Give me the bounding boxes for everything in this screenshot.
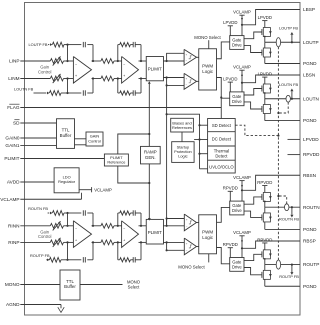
svg-text:Drive: Drive — [232, 43, 242, 48]
wire detect bus — [199, 125, 201, 169]
svg-text:ROUTP FB: ROUTP FB — [279, 274, 299, 279]
wire ls drain ROUTN — [264, 207, 266, 213]
svg-text:ROUTP FB: ROUTP FB — [30, 253, 50, 258]
wire fb2nd bot right — [130, 92, 133, 94]
svg-text:LINM: LINM — [8, 76, 19, 81]
svg-text:LOUTN FB: LOUTN FB — [279, 82, 299, 87]
svg-text:Select: Select — [128, 284, 140, 289]
wire pgnd row ROUTP — [265, 285, 300, 287]
resistor L input 1 (variable) — [50, 59, 63, 64]
block LDO Regulator — [54, 168, 79, 193]
wire row2 to stage2 — [114, 241, 122, 243]
wire comp2 output — [197, 80, 199, 82]
wire ls source ROUTN — [264, 222, 266, 229]
transistor LOUTP high-side — [263, 28, 270, 37]
op-amp R second stage — [122, 221, 139, 248]
svg-text:ROUTN FB: ROUTN FB — [279, 217, 299, 222]
wire in1 node — [64, 225, 74, 227]
svg-text:Control: Control — [38, 70, 52, 75]
block PLIMIT (bottom channel) — [146, 219, 163, 244]
wire vclamp pin up to LDO — [81, 193, 83, 199]
wire drain up LOUTP — [264, 21, 266, 28]
junction pwm2-sdtap — [220, 96, 222, 98]
wire hs source LOUTP — [264, 37, 266, 43]
block Gate Drive ROUTN — [230, 201, 244, 215]
wire gate hs LOUTN — [244, 89, 262, 96]
wire stage2 out1 — [139, 60, 147, 62]
resistor L feedback bottom — [49, 91, 61, 96]
wire bootstrap LBSN — [242, 75, 300, 83]
wire stage2 out2 — [139, 78, 147, 80]
svg-text:MONO: MONO — [5, 282, 20, 287]
wire FB arrow LOUTN — [291, 98, 293, 100]
wire gate hs ROUTP — [244, 254, 262, 260]
svg-text:ROUTN FB: ROUTN FB — [28, 206, 48, 211]
wire ttl to gain2 — [75, 144, 87, 146]
wire pwm to gate LOUTP — [217, 42, 230, 59]
wire PLIMIT2 out2 — [163, 241, 184, 243]
wire mono out — [80, 284, 123, 286]
svg-text:VCLAMP: VCLAMP — [233, 230, 251, 235]
wire gate hs ROUTN — [244, 197, 262, 204]
wire mono select to PWM2 — [208, 254, 210, 263]
wire drain up ROUTP — [264, 243, 266, 250]
svg-text:RINN: RINN — [8, 223, 19, 228]
block PLIMIT (top channel) — [146, 57, 163, 81]
svg-text:VCLAMP: VCLAMP — [0, 197, 19, 202]
resistor L feedback top — [52, 42, 64, 47]
svg-text:Drive: Drive — [232, 208, 242, 213]
wire bus to SD — [200, 124, 208, 126]
wire ls source ROUTP — [264, 279, 266, 286]
wire gate ls LOUTP — [244, 46, 262, 53]
svg-text:−: − — [123, 227, 125, 231]
transistor ROUTN low-side — [263, 213, 270, 222]
block Gate Drive ROUTP — [230, 258, 244, 272]
resistor L interstage 2 — [101, 76, 114, 81]
wire fb2nd bot left — [117, 242, 119, 259]
block RAMP GEN — [141, 146, 161, 164]
svg-text:−: − — [75, 62, 77, 66]
wire ls source LOUTP — [264, 57, 266, 64]
svg-text:GAIN0: GAIN0 — [5, 136, 19, 141]
svg-text:LPVDD: LPVDD — [258, 15, 272, 20]
svg-text:RPVDD: RPVDD — [223, 186, 238, 191]
wire drain up ROUTN — [264, 186, 266, 193]
wire fb1 cap row — [68, 212, 82, 214]
wire pwm to gate ROUTP — [217, 248, 230, 264]
svg-text:LBSP: LBSP — [303, 7, 315, 12]
wire interstage row1 — [92, 225, 101, 227]
wire in2 node — [64, 241, 74, 243]
wire pwm to gate LOUTN — [217, 78, 230, 99]
svg-text:Logic: Logic — [178, 154, 187, 159]
svg-text:PGND: PGND — [303, 118, 317, 123]
svg-text:PWM: PWM — [202, 64, 213, 69]
wire pwm to gate ROUTN — [217, 207, 230, 222]
svg-text:UVLO/OCLO: UVLO/OCLO — [209, 164, 234, 169]
svg-text:RPVDD: RPVDD — [257, 180, 272, 185]
wire plimitref elbow bottom — [118, 166, 150, 183]
svg-text:+: + — [75, 238, 77, 242]
svg-text:−: − — [186, 58, 188, 62]
transistor ROUTN high-side — [263, 192, 270, 201]
transistor LOUTN low-side — [263, 105, 270, 114]
svg-text:PGND: PGND — [303, 227, 317, 232]
wire FB arrow ROUTP — [291, 264, 293, 266]
svg-text:LOUTN FB: LOUTN FB — [14, 87, 34, 92]
sense ellipse LOUTP — [276, 38, 280, 47]
svg-text:Buffer: Buffer — [64, 284, 76, 289]
svg-text:PWM: PWM — [202, 230, 213, 235]
svg-text:FLAG: FLAG — [7, 105, 20, 110]
wire bootstrap RBSP — [242, 241, 300, 248]
wire FB arrow LOUTP — [291, 41, 293, 43]
transistor LOUTP low-side — [263, 48, 270, 57]
resistor R feedback top — [52, 211, 64, 216]
svg-text:AVDD: AVDD — [7, 180, 20, 185]
svg-text:Drive: Drive — [232, 99, 242, 104]
svg-text:Drive: Drive — [232, 265, 242, 270]
wire comp1 top input elbow — [167, 53, 185, 61]
svg-text:MONO Select: MONO Select — [194, 35, 221, 40]
wire dashed elbow ROUTN — [278, 196, 286, 204]
wire ls drain LOUTN — [264, 99, 266, 105]
wire ls source LOUTN — [264, 114, 266, 121]
capacitor L fb top — [82, 42, 84, 47]
svg-text:−: − — [186, 83, 188, 87]
wire RPVDD stub — [288, 154, 301, 156]
comparator channel1 A — [184, 49, 196, 65]
wire LOUTP FB arrow — [48, 44, 49, 46]
wire bus to UVLO — [200, 168, 208, 170]
transistor ROUTP high-side — [263, 250, 270, 259]
svg-text:Control: Control — [38, 234, 52, 239]
wire LPVDD stub — [288, 138, 301, 140]
wire comp1' top elbow — [167, 219, 185, 226]
wire pvdd down ROUTN — [229, 191, 231, 201]
svg-text:+: + — [186, 53, 188, 57]
wire fb2nd top right — [130, 44, 133, 46]
svg-text:LPVDD: LPVDD — [258, 72, 272, 77]
svg-text:−: − — [123, 62, 125, 66]
wire fb2nd top left — [117, 213, 119, 226]
svg-text:SD: SD — [13, 121, 20, 126]
wire vclamp down LOUTN — [241, 70, 243, 92]
wire ls drain LOUTP — [264, 42, 266, 48]
wire ROUTP FB arrow — [46, 259, 49, 261]
svg-text:Buffer: Buffer — [60, 133, 72, 138]
capacitor L 2nd fb top — [132, 42, 134, 47]
svg-text:Regulator: Regulator — [58, 179, 76, 184]
svg-text:Detect: Detect — [215, 153, 228, 158]
svg-text:PLIMIT: PLIMIT — [148, 230, 162, 235]
svg-text:RBSP: RBSP — [303, 239, 316, 244]
wire comp2' bottom elbow — [167, 242, 185, 250]
wire ROUTN FB arrow — [48, 212, 50, 214]
svg-text:RPVDD: RPVDD — [257, 237, 272, 242]
resistor L interstage 1 — [101, 59, 114, 64]
svg-text:LINP: LINP — [9, 59, 19, 64]
block GAIN Control — [86, 132, 103, 146]
wire fb2 to node — [61, 92, 68, 94]
wire dashed SD detect sense — [235, 125, 278, 135]
comparator channel2 B — [184, 238, 196, 255]
svg-text:+: + — [123, 238, 125, 242]
wire hs source ROUTN — [264, 201, 266, 207]
svg-text:Logic: Logic — [202, 69, 214, 74]
block PWM Logic (top) — [199, 49, 217, 90]
wire dashed elbow LOUTN — [278, 102, 288, 113]
wire FB arrow ROUTN — [291, 206, 293, 208]
svg-text:Reference: Reference — [107, 159, 125, 164]
wire gate ls LOUTN — [244, 102, 262, 109]
svg-text:LOUTP: LOUTP — [303, 40, 319, 45]
wire vclamp down LOUTP — [241, 15, 243, 35]
svg-text:PGND: PGND — [303, 284, 317, 289]
svg-text:PLIMIT: PLIMIT — [4, 156, 19, 161]
wire comp1' output — [197, 221, 199, 223]
svg-text:LPVDD: LPVDD — [223, 20, 237, 25]
wire interstage row1 — [92, 60, 101, 62]
wire output row LOUTN — [265, 98, 300, 100]
svg-text:ROUTP: ROUTP — [303, 262, 319, 267]
resistor R interstage 1 — [101, 223, 114, 228]
wire drain up LOUTN — [264, 77, 266, 84]
wire dashed main vertical — [277, 47, 279, 260]
svg-text:References: References — [172, 125, 192, 130]
svg-text:LOUTP FB: LOUTP FB — [29, 42, 48, 47]
wire bus to thermal — [200, 153, 208, 155]
block Gate Drive LOUTN — [230, 92, 244, 106]
wire PLIMIT1 out1 — [163, 60, 184, 62]
svg-text:DC Detect: DC Detect — [212, 137, 232, 142]
svg-text:ROUTN: ROUTN — [303, 205, 320, 210]
wire ttl to gain1 — [75, 138, 87, 140]
wire gate hs LOUTP — [244, 32, 262, 39]
wire hs source LOUTN — [264, 93, 266, 99]
svg-text:VCLAMP: VCLAMP — [233, 175, 251, 180]
wire output row LOUTP — [265, 41, 300, 43]
wire comp2' output — [197, 245, 199, 247]
svg-text:−: − — [75, 227, 77, 231]
svg-text:RINP: RINP — [8, 240, 19, 245]
svg-text:LOUTN: LOUTN — [303, 96, 319, 101]
wire interstage row2 — [92, 241, 101, 243]
resistor R input 2 (variable) — [50, 240, 63, 245]
svg-text:RBSN: RBSN — [303, 173, 316, 178]
wire gate ls ROUTN — [244, 211, 262, 217]
svg-text:VCLAMP: VCLAMP — [94, 187, 112, 192]
svg-text:PLIMIT: PLIMIT — [148, 67, 162, 72]
wire fb1 cap row — [68, 44, 82, 46]
wire hs source ROUTP — [264, 259, 266, 265]
wire fb1 to node — [64, 212, 68, 214]
wire fb2nd top right — [130, 212, 133, 214]
wire vclamp down ROUTP — [241, 236, 243, 258]
wire startup to bus — [194, 139, 199, 141]
op-amp L first stage — [73, 56, 91, 83]
resistor R 2nd fb bottom — [120, 258, 131, 262]
divider dc/thermal — [208, 145, 236, 147]
svg-text:VCLAMP: VCLAMP — [233, 10, 251, 15]
wire ramp up to PLIMIT1 — [148, 83, 150, 147]
block PLIMIT Reference — [104, 154, 128, 166]
resistor R 2nd fb top — [120, 211, 131, 215]
wire ls drain ROUTP — [264, 265, 266, 271]
svg-text:LPVDD: LPVDD — [223, 77, 237, 82]
svg-text:+: + — [186, 77, 188, 81]
wire pgnd row LOUTP — [265, 63, 300, 65]
transistor ROUTP low-side — [263, 270, 270, 279]
block detect stack — [208, 119, 236, 174]
svg-text:RPVDD: RPVDD — [303, 152, 320, 157]
op-amp R first stage — [73, 221, 91, 248]
divider sd/dc — [208, 131, 236, 133]
wire fb2nd bot left — [117, 79, 119, 94]
wire pvdd down LOUTP — [229, 26, 231, 36]
wire bootstrap LBSP — [242, 10, 300, 25]
svg-text:PGND: PGND — [303, 61, 317, 66]
svg-text:LPVDD: LPVDD — [303, 137, 319, 142]
transistor LOUTN high-side — [263, 84, 270, 93]
capacitor R fb top — [82, 210, 84, 215]
comparator channel1 B — [184, 73, 196, 89]
wire pgnd row ROUTN — [265, 228, 300, 230]
sense ellipse ROUTN — [285, 204, 289, 211]
wire row2 to stage2 — [114, 78, 122, 80]
block TTL Buffer (top) — [57, 119, 75, 149]
wire LOUTN FB arrow — [34, 92, 47, 94]
wire fb2 cap row — [68, 92, 82, 94]
capacitor L 2nd fb bottom — [132, 90, 134, 95]
wire output row ROUTN — [265, 206, 300, 208]
wire pvdd down ROUTP — [229, 248, 231, 258]
wire fb2nd top left — [117, 45, 119, 61]
block Startup Protection Logic — [172, 142, 194, 163]
wire pvdd down LOUTN — [229, 82, 231, 92]
wire fb2nd bot right — [130, 259, 133, 261]
sense ellipse ROUTP — [276, 260, 280, 269]
svg-text:GEN.: GEN. — [145, 155, 156, 160]
wire output row ROUTP — [265, 264, 300, 266]
wire LDO output — [79, 189, 92, 191]
wire vclamp down ROUTN — [241, 181, 243, 202]
wire ramp down to PLIMIT2 — [148, 164, 150, 220]
svg-text:Control: Control — [88, 138, 101, 143]
block Biases and References — [171, 118, 194, 132]
wire interstage row2 — [92, 78, 101, 80]
resistor R feedback bottom — [49, 257, 61, 262]
wire in1 node — [64, 60, 74, 62]
wire PLIMIT2 out1 — [163, 225, 184, 227]
block TTL Buffer (bottom) — [60, 270, 80, 300]
svg-text:+: + — [186, 242, 188, 246]
wire gate ls ROUTP — [244, 268, 262, 275]
wire long vertical (plimit out2 to ch2) — [166, 78, 168, 226]
ground AGND arrow — [60, 305, 62, 309]
node VCLAMP net label — [91, 187, 93, 192]
svg-text:VCLAMP: VCLAMP — [233, 65, 251, 70]
svg-text:+: + — [123, 74, 125, 78]
svg-text:SD Detect: SD Detect — [212, 123, 232, 128]
wire mono select to PWM1 — [208, 40, 210, 49]
wire fb2 to node — [61, 259, 68, 261]
svg-text:RPVDD: RPVDD — [223, 242, 238, 247]
wire pgnd row LOUTN — [265, 120, 300, 122]
capacitor L fb bottom — [82, 90, 84, 95]
wire row1 to stage2 — [114, 225, 122, 227]
wire FLAG to SD detect — [220, 98, 222, 118]
wire comp2 bottom input elbow — [167, 84, 185, 86]
svg-text:LOUTP FB: LOUTP FB — [279, 26, 298, 31]
wire tap to detect bus — [167, 114, 200, 125]
wire PLIMIT1 out2 — [163, 77, 184, 79]
resistor R input 1 (variable) — [50, 223, 63, 228]
wire bus to DC — [200, 139, 208, 141]
resistor L 2nd fb bottom — [120, 91, 131, 95]
svg-text:−: − — [186, 248, 188, 252]
comparator channel2 A — [184, 214, 196, 231]
capacitor R 2nd fb bottom — [132, 257, 134, 262]
svg-text:MONO Select: MONO Select — [178, 264, 205, 269]
wire stage2 out2 — [139, 241, 147, 243]
wire fb2 cap row — [68, 259, 82, 261]
wire bootstrap RBSN — [242, 175, 300, 190]
svg-text:+: + — [75, 74, 77, 78]
wire comp1 output — [197, 56, 199, 58]
wire plimitref elbow top — [118, 134, 150, 154]
wire fb1 to node — [64, 44, 68, 46]
capacitor R fb bottom — [82, 257, 84, 262]
wire in2 node — [64, 78, 74, 80]
resistor L 2nd fb top — [120, 43, 131, 47]
svg-text:GAIN1: GAIN1 — [5, 143, 19, 148]
block Gate Drive LOUTP — [230, 36, 244, 50]
wire biases to startup — [181, 132, 183, 142]
wire stage2 out1 — [139, 225, 147, 227]
svg-text:Logic: Logic — [202, 235, 214, 240]
capacitor R 2nd fb top — [132, 210, 134, 215]
divider thermal/uvlo — [208, 159, 236, 161]
block PWM Logic (bottom) — [199, 215, 217, 254]
resistor L input 2 (variable) — [50, 76, 63, 81]
svg-text:LBSN: LBSN — [303, 73, 315, 78]
wire row1 to stage2 — [114, 60, 122, 62]
svg-text:AGND: AGND — [6, 302, 20, 307]
sense ellipse LOUTN — [286, 95, 290, 102]
op-amp L second stage — [122, 56, 139, 83]
svg-text:+: + — [186, 218, 188, 222]
svg-text:−: − — [186, 224, 188, 228]
resistor R interstage 2 — [101, 240, 114, 245]
